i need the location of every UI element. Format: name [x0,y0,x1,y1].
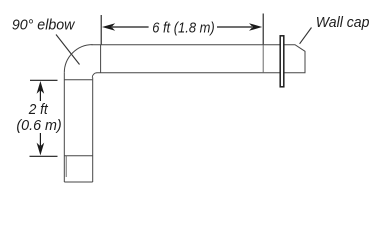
leader line to wall cap [300,28,312,44]
dimension line left segment with arrowhead [112,26,149,28]
vertical pipe left edge [63,73,65,182]
horizontal pipe top edge [92,44,280,46]
svg-text:(0.6 m): (0.6 m) [16,118,61,134]
elbow outer curve [64,45,92,73]
wall cap body [284,45,305,73]
2 ft dimension line upper segment with up arrow [39,90,41,101]
svg-text:Wall cap: Wall cap [316,15,370,31]
elbow inner curve [92,73,97,78]
2 ft dimension line lower segment with down arrow [39,133,41,146]
pipe joint at wall [262,45,264,73]
vertical pipe joint line [64,155,92,157]
svg-text:6 ft (1.8 m): 6 ft (1.8 m) [152,20,215,36]
svg-text:2 ft: 2 ft [28,102,49,118]
vertical pipe right edge [92,78,94,183]
svg-text:90° elbow: 90° elbow [12,17,76,34]
extension line left (6 ft dimension) [100,15,102,45]
2 ft dimension top extension line [30,79,58,81]
dimension line right segment with arrowhead [217,26,252,28]
elbow joint line to vertical pipe [64,79,92,81]
vertical pipe inner sleeve line [65,156,67,177]
extension line right (6 ft dimension) [262,14,264,45]
wall flange plate [280,36,284,87]
vertical pipe bottom edge [64,181,92,183]
leader line to elbow [56,35,80,65]
horizontal pipe bottom edge [97,72,280,74]
elbow joint line to horizontal pipe [100,45,102,73]
2 ft dimension bottom extension line [30,155,58,157]
